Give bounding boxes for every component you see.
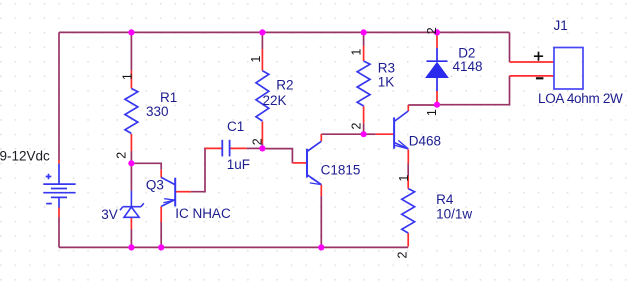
pin R2-2 xyxy=(261,121,263,143)
junction top rail at R2 xyxy=(259,29,265,35)
wire C1815 collector to R3 node xyxy=(321,133,363,135)
svg-text:2: 2 xyxy=(395,251,409,258)
connector J1 box xyxy=(554,48,583,90)
pin R4-1 xyxy=(407,177,409,189)
junction bottom rail at Q3 emitter xyxy=(158,244,164,250)
pin D468 emitter xyxy=(407,150,409,164)
pin battery bottom xyxy=(58,208,60,218)
pin zener anode xyxy=(130,217,132,229)
svg-text:C1815: C1815 xyxy=(321,162,361,177)
resistor R2 xyxy=(256,71,269,121)
diode D2 4148 xyxy=(427,48,448,91)
pin Q3 base xyxy=(175,191,191,193)
J1 plus sign xyxy=(534,52,543,61)
junction top rail at R3 xyxy=(361,29,367,35)
svg-text:R1: R1 xyxy=(160,90,177,105)
pin C1815 emitter xyxy=(320,185,322,196)
wire D2 node to J1 minus xyxy=(437,76,510,105)
pin D2 bottom xyxy=(436,91,438,105)
junction bottom rail at zener xyxy=(128,244,134,250)
svg-text:1: 1 xyxy=(397,175,411,182)
wire zener top xyxy=(130,163,132,191)
resistor R4 xyxy=(402,189,415,233)
svg-text:1K: 1K xyxy=(378,74,395,89)
svg-text:1: 1 xyxy=(350,49,364,56)
svg-text:1: 1 xyxy=(121,73,135,80)
zener diode 3V xyxy=(120,191,144,217)
wire R1 bottom to node xyxy=(130,151,132,163)
svg-text:1: 1 xyxy=(249,56,263,63)
svg-text:9-12Vdc: 9-12Vdc xyxy=(0,148,50,163)
svg-text:Q3: Q3 xyxy=(146,178,164,193)
svg-text:C1: C1 xyxy=(227,119,244,134)
pin C1815 collector xyxy=(320,134,322,141)
wire top rail corner to J1 plus xyxy=(509,32,511,62)
svg-text:R2: R2 xyxy=(276,77,293,92)
pin D468 collector xyxy=(407,105,409,111)
wire R2 top xyxy=(261,32,263,49)
transistor Q1 D468 (NPN) xyxy=(394,111,408,149)
svg-text:D468: D468 xyxy=(409,134,441,149)
wire node to Q3 collector xyxy=(131,163,161,170)
capacitor C1 xyxy=(222,140,229,157)
pin R1-2 xyxy=(130,134,132,151)
svg-text:R3: R3 xyxy=(378,61,395,76)
pin C1815 base xyxy=(292,162,307,164)
junction top rail at R1 xyxy=(128,29,134,35)
wire zener bottom xyxy=(130,229,132,247)
svg-text:2: 2 xyxy=(250,138,264,145)
wire left vertical (battery branch) xyxy=(58,32,60,160)
wire D468 collector to D2 node xyxy=(408,104,437,106)
junction node C1/R2/Q2 base xyxy=(259,145,265,151)
junction node R1/zener/Q3 xyxy=(128,160,134,166)
wire C1 right to node xyxy=(247,147,263,149)
junction node R3/collector/D468 base xyxy=(361,131,367,137)
wire D468 emitter to R4 xyxy=(407,164,409,177)
wire R1 top xyxy=(130,32,132,70)
svg-text:IC NHAC: IC NHAC xyxy=(175,206,231,221)
wire top rail xyxy=(59,31,510,33)
pin J1 plus xyxy=(510,61,555,63)
svg-text:10/1w: 10/1w xyxy=(436,207,472,222)
pin battery top xyxy=(58,160,60,164)
resistor R3 xyxy=(357,61,370,106)
svg-text:3V: 3V xyxy=(101,207,118,222)
wire Q3 base to C1 xyxy=(191,148,206,191)
svg-text:1uF: 1uF xyxy=(227,157,250,172)
battery BT (9-12Vdc) xyxy=(43,164,75,208)
svg-text:330: 330 xyxy=(146,104,169,119)
wire Q3 emitter down xyxy=(160,222,162,247)
svg-text:LOA 4ohm 2W: LOA 4ohm 2W xyxy=(538,91,623,106)
wire battery bottom xyxy=(58,217,60,247)
resistor R1 xyxy=(125,89,138,134)
svg-text:1: 1 xyxy=(425,109,439,116)
pin R3-2 xyxy=(363,106,365,123)
svg-text:4148: 4148 xyxy=(453,59,483,74)
svg-text:22K: 22K xyxy=(263,93,287,108)
pin R1-1 xyxy=(130,71,132,89)
svg-text:2: 2 xyxy=(425,27,439,34)
wire R3 node to D468 base xyxy=(364,133,376,135)
transistor Q3 (PNP) xyxy=(161,177,175,206)
pin J1 minus xyxy=(510,75,555,77)
pin C1 left xyxy=(205,147,222,149)
pin R3-1 xyxy=(363,46,365,61)
wire C1815 emitter down xyxy=(320,196,322,247)
junction bottom rail at C1815 emitter xyxy=(318,244,324,250)
wire bottom rail xyxy=(59,246,408,248)
pin Q3 emitter xyxy=(160,206,162,222)
wire R2 bottom xyxy=(261,143,263,148)
wire node to C1815 base xyxy=(262,149,292,163)
pin R4-2 xyxy=(407,233,409,247)
wire R3 top xyxy=(363,32,365,46)
pin R2-1 xyxy=(261,49,263,71)
pin D468 base xyxy=(376,133,394,135)
wire R3 bottom xyxy=(363,123,365,134)
pin C1 right xyxy=(230,147,247,149)
junction node D2/J1 minus xyxy=(434,102,440,108)
svg-text:J1: J1 xyxy=(554,18,568,33)
J1 minus sign xyxy=(536,77,544,79)
svg-text:2: 2 xyxy=(114,152,128,159)
transistor Q2 C1815 (NPN) xyxy=(307,141,321,184)
pin D2 top xyxy=(436,32,438,48)
pin Q3 collector xyxy=(160,170,162,178)
svg-text:R4: R4 xyxy=(436,192,454,207)
svg-text:2: 2 xyxy=(349,122,363,129)
junction top rail at D2 xyxy=(434,29,440,35)
